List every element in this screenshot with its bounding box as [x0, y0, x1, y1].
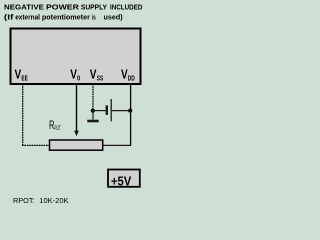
node junction VDD: [128, 109, 132, 113]
svg-text:external: external: [15, 13, 40, 22]
svg-text:POT: POT: [54, 126, 60, 132]
ground bar: [87, 120, 98, 123]
pin label VEE: [15, 67, 29, 83]
resistor RPOT body: [50, 140, 103, 150]
svg-text:SUPPLY: SUPPLY: [81, 3, 107, 12]
title line 1: [4, 3, 143, 12]
svg-text:EE: EE: [21, 76, 28, 83]
IC U1 body: [11, 29, 141, 85]
svg-text:(If: (If: [4, 13, 14, 22]
+5V supply box: [108, 170, 140, 187]
wire VEE horizontal to RPOT: [22, 144, 49, 146]
svg-text:RPOT:: RPOT:: [13, 196, 35, 205]
wire VDD vertical: [130, 84, 132, 145]
label RPOT: [49, 120, 61, 132]
title line 2: [4, 13, 123, 22]
svg-text:DD: DD: [128, 76, 135, 83]
pin label V0: [70, 67, 80, 83]
battery B1 positive plate: [110, 99, 112, 121]
svg-text:INCLUDED: INCLUDED: [110, 3, 143, 12]
svg-text:+5V: +5V: [111, 173, 132, 188]
battery B1 negative plate: [106, 105, 108, 115]
pin label VSS: [90, 67, 104, 83]
svg-text:SS: SS: [97, 76, 104, 83]
wire node to battery: [93, 110, 106, 112]
svg-text:NEGATIVE: NEGATIVE: [4, 3, 44, 12]
svg-text:0: 0: [77, 76, 80, 83]
wire VSS vertical: [92, 84, 94, 111]
wire battery to VDD: [112, 110, 131, 112]
node junction VSS: [91, 109, 95, 113]
wiper arrowhead: [74, 131, 79, 137]
wire V0 vertical (pot wiper): [76, 84, 78, 132]
svg-text:potentiometer: potentiometer: [42, 13, 90, 22]
wire RPOT right lead: [103, 144, 131, 146]
svg-text:POWER: POWER: [46, 3, 80, 12]
note RPOT value: [13, 196, 69, 205]
ground stem: [92, 111, 94, 120]
svg-text:used): used): [104, 13, 124, 22]
pin label VDD: [121, 67, 135, 83]
svg-text:is: is: [92, 13, 96, 22]
wire VEE vertical: [22, 84, 24, 145]
svg-text:10K-20K: 10K-20K: [39, 196, 68, 205]
